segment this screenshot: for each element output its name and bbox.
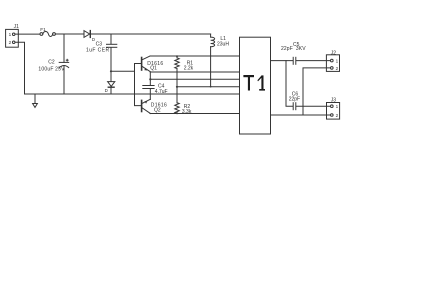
transformer T1 (240, 37, 271, 134)
ground (33, 94, 38, 107)
svg-text:22pF 3KV: 22pF 3KV (281, 46, 306, 52)
wire Q1 collector to T1 pin1 (150, 55, 240, 57)
capacitor C6 (293, 103, 330, 110)
svg-text:F1: F1 (40, 27, 46, 33)
svg-text:D: D (92, 37, 95, 42)
svg-text:3.3k: 3.3k (182, 109, 192, 115)
inductor L1 (210, 34, 215, 88)
svg-text:2.2k: 2.2k (184, 65, 194, 71)
zener diode D2 (108, 82, 115, 94)
svg-text:2: 2 (336, 113, 339, 118)
bottom rail (ground rail) (25, 93, 240, 95)
base bus wire (135, 64, 142, 106)
capacitor C5 (293, 57, 330, 64)
wire emitter node to T1 pin3 (150, 78, 239, 80)
wire T1 right pin2 to J3 pin2 (271, 114, 331, 116)
fuse F1 (40, 32, 55, 37)
svg-text:22pF: 22pF (289, 96, 300, 102)
resistor R2 (175, 103, 179, 115)
svg-text:1uF CER: 1uF CER (86, 47, 110, 53)
svg-text:1: 1 (9, 32, 12, 37)
wire zener node to base bus (111, 70, 135, 72)
wire T1 right pin1 to C5 (271, 60, 293, 62)
wire HV node down to C6 (286, 61, 293, 107)
capacitor C2 (59, 34, 68, 94)
svg-text:Q1: Q1 (150, 65, 157, 71)
transistor Q2 (142, 99, 151, 113)
wire R junction to T1 pin4 (177, 86, 240, 88)
wire D1 to L1 (top rail) (91, 33, 211, 35)
connector J1 (6, 29, 19, 47)
svg-text:Q2: Q2 (154, 108, 161, 114)
capacitor C4 (143, 72, 154, 99)
svg-text:23uH: 23uH (217, 41, 229, 47)
transistor Q1 (142, 56, 151, 72)
svg-text:J1: J1 (14, 24, 20, 30)
T1 label (243, 75, 265, 91)
svg-text:J2: J2 (331, 50, 337, 56)
svg-text:100uF 25V: 100uF 25V (38, 67, 65, 73)
wire J2 pin2 return (303, 68, 331, 115)
wire fuse to diode D1 (55, 33, 84, 35)
capacitor C3 (107, 34, 117, 81)
svg-text:C2: C2 (48, 60, 55, 66)
resistor R1 (175, 55, 179, 68)
svg-text:D: D (105, 88, 108, 93)
svg-text:2: 2 (336, 66, 339, 71)
wire J1 pin2 to bottom rail (15, 42, 25, 94)
connector J3 (327, 103, 340, 120)
wire Q1 emitter to T1 pin2 (150, 71, 239, 73)
svg-text:2: 2 (9, 40, 12, 45)
connector J2 (326, 55, 339, 72)
svg-text:J3: J3 (331, 98, 337, 104)
wire J1 pin1 to fuse (15, 33, 40, 35)
svg-text:1: 1 (336, 104, 339, 109)
wire R1 bottom to R2 top (176, 69, 178, 103)
svg-text:1: 1 (336, 59, 339, 64)
wire Q2 collector to T1 pin6 (150, 113, 240, 115)
diode D1 (84, 31, 90, 38)
svg-text:4.7uF: 4.7uF (155, 89, 168, 95)
